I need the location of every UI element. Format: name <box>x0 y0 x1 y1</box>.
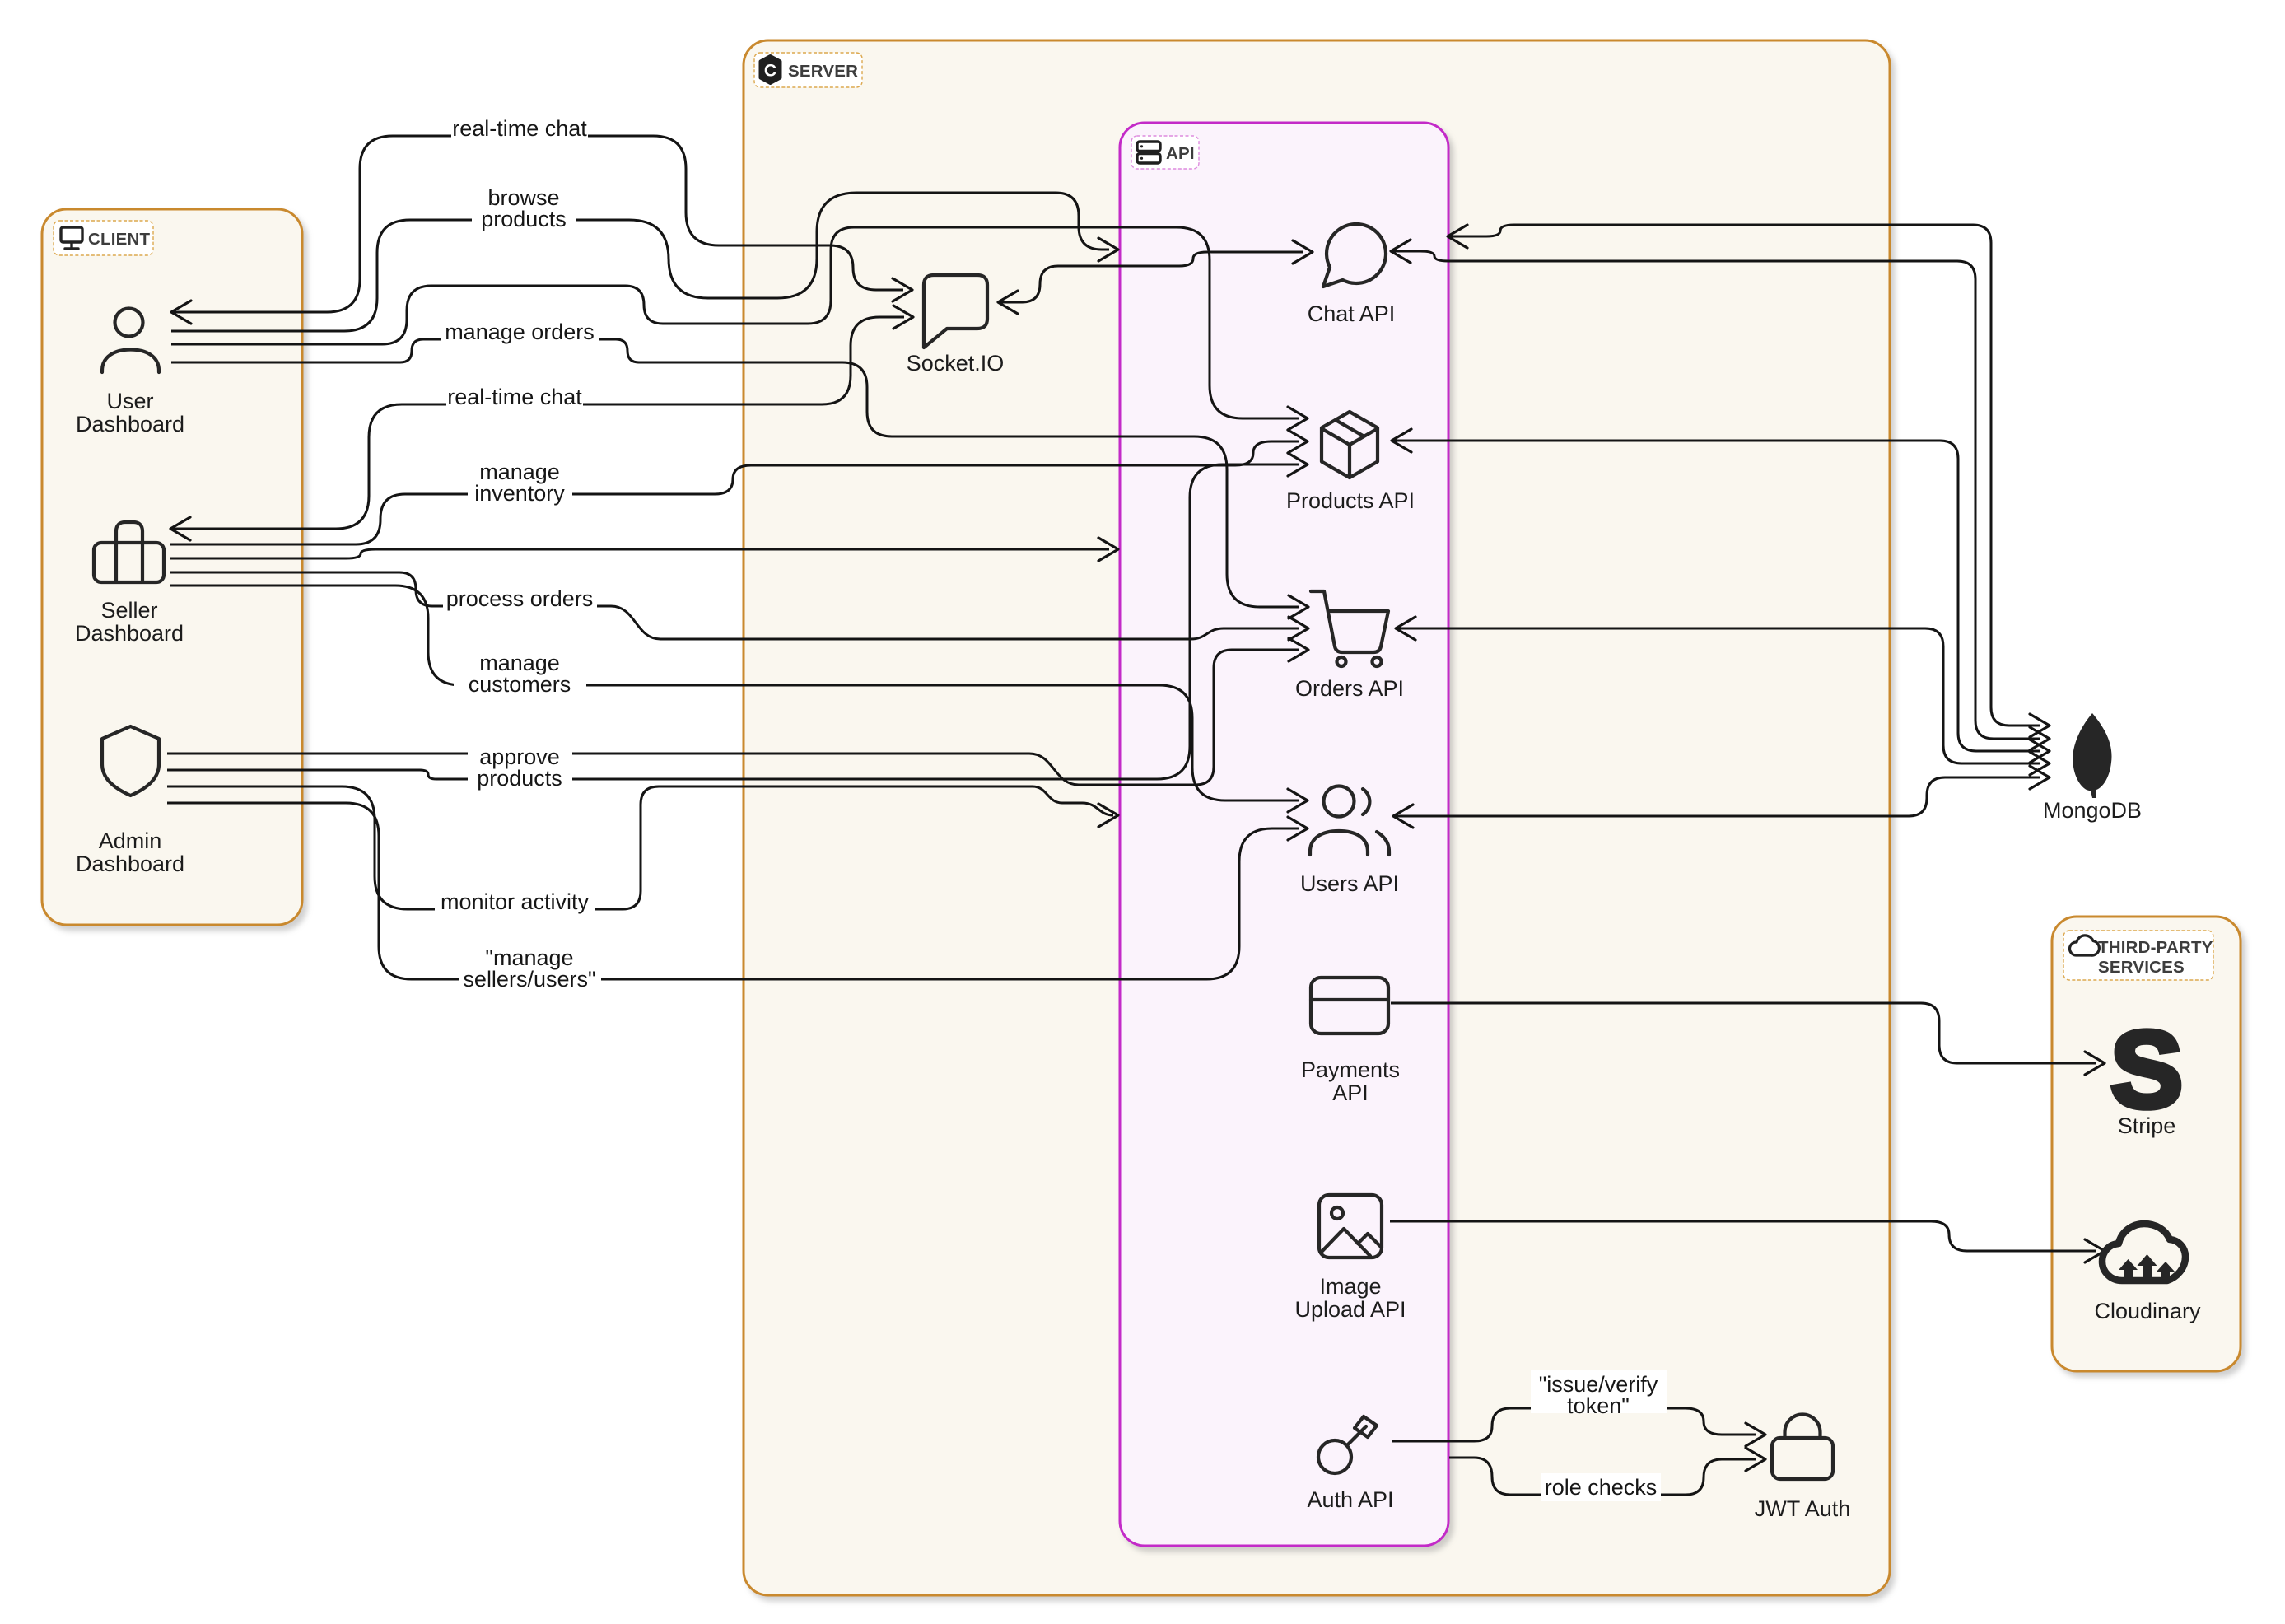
label real-time chat (User) <box>451 114 588 142</box>
wire Seller Dashboard <> Socket.IO (real-time chat) <box>170 317 904 529</box>
label manage orders <box>441 318 599 346</box>
wire User Dashboard > Products API <box>171 227 1299 418</box>
svg-text:THIRD-PARTY: THIRD-PARTY <box>2098 938 2213 957</box>
svg-text:SERVICES: SERVICES <box>2098 958 2185 977</box>
node User Dashboard (person icon) <box>115 309 143 337</box>
svg-text:JWT Auth: JWT Auth <box>1755 1496 1851 1521</box>
svg-text:customers: customers <box>469 672 571 697</box>
wire Admin Dashboard > Users API (manage sellers/users) <box>167 803 1299 979</box>
svg-text:Seller: Seller <box>100 598 157 623</box>
svg-text:Image: Image <box>1319 1274 1381 1299</box>
label real-time chat (Seller) <box>446 383 583 411</box>
svg-text:MongoDB: MongoDB <box>2043 798 2142 823</box>
svg-text:real-time chat: real-time chat <box>452 116 587 141</box>
svg-text:manage orders: manage orders <box>445 320 595 344</box>
wire Admin Dashboard > Orders API <box>167 650 1299 785</box>
NODE LABELS <box>75 301 2201 1521</box>
wire User Dashboard <> Socket.IO (real-time chat) <box>171 136 903 312</box>
label manage inventory <box>468 459 572 500</box>
group CLIENT <box>42 209 302 925</box>
node Image Upload API (image icon) <box>1319 1195 1382 1258</box>
group API <box>1120 123 1448 1546</box>
label "manage sellers/users" <box>459 945 601 987</box>
node Seller Dashboard (briefcase icon) <box>94 543 164 582</box>
svg-text:Dashboard: Dashboard <box>76 412 184 436</box>
svg-text:Dashboard: Dashboard <box>75 621 184 646</box>
svg-text:Payments: Payments <box>1301 1057 1400 1082</box>
label approve products <box>468 744 572 786</box>
badge SERVER <box>754 53 862 87</box>
wire Seller Dashboard > Users API (manage customers) <box>170 586 1299 800</box>
wire Image Upload API > Cloudinary <box>1390 1221 2096 1251</box>
svg-text:products: products <box>481 207 567 231</box>
wire User Dashboard > Orders API (manage orders) <box>171 339 1299 607</box>
node Auth API (key icon) <box>1318 1440 1351 1473</box>
svg-text:Users API: Users API <box>1300 871 1399 896</box>
node Orders API (cart icon) <box>1311 591 1388 652</box>
wire Seller Dashboard > Orders API (process orders) <box>170 572 1299 639</box>
wire Orders API <> MongoDB <box>1396 628 2040 763</box>
wire Admin Dashboard > Products API (approve products) <box>167 464 1299 779</box>
node JWT Auth (lock icon) <box>1772 1438 1833 1479</box>
badge THIRD-PARTY SERVICES <box>2063 931 2213 980</box>
svg-text:Dashboard: Dashboard <box>76 852 184 876</box>
svg-text:SERVER: SERVER <box>788 62 858 81</box>
wire Chat API <> MongoDB <box>1391 251 2040 739</box>
EDGE LABELS <box>435 114 1667 1501</box>
node Cloudinary (cloud upload icon) <box>2102 1224 2185 1281</box>
svg-text:C: C <box>764 62 776 81</box>
label "issue/verify token" <box>1531 1370 1667 1413</box>
wire Users API <> MongoDB <box>1393 777 2040 816</box>
badge CLIENT <box>54 221 153 255</box>
svg-text:CLIENT: CLIENT <box>88 230 150 249</box>
group THIRD-PARTY SERVICES <box>2052 917 2241 1371</box>
svg-text:Upload API: Upload API <box>1294 1297 1406 1322</box>
node Products API (package icon) <box>1322 412 1378 478</box>
svg-text:User: User <box>106 389 153 413</box>
node MongoDB (leaf icon) <box>2073 713 2111 798</box>
node Admin Dashboard (shield icon) <box>102 726 159 796</box>
wire Socket.IO <> Chat API <box>998 252 1303 302</box>
svg-text:API: API <box>1166 144 1195 163</box>
wire Admin Dashboard > API (monitor activity) <box>167 786 1113 909</box>
wire Seller Dashboard > API <box>170 549 1109 558</box>
svg-text:API: API <box>1332 1080 1369 1105</box>
svg-text:Auth API: Auth API <box>1307 1487 1393 1512</box>
svg-text:monitor activity: monitor activity <box>441 889 590 914</box>
wire Products API <> MongoDB <box>1392 441 2040 751</box>
svg-text:Orders API: Orders API <box>1295 676 1404 701</box>
svg-text:S: S <box>2110 1009 2183 1130</box>
wire Auth API > JWT Auth (issue/verify token) <box>1392 1408 1756 1441</box>
monitor icon <box>61 227 82 242</box>
badge API <box>1131 136 1199 169</box>
svg-text:real-time chat: real-time chat <box>447 385 582 409</box>
wire MongoDB <> API <box>1448 225 2040 726</box>
wire Payments API > Stripe <box>1391 1003 2096 1063</box>
svg-text:Admin: Admin <box>99 828 162 853</box>
label browse products <box>472 184 576 226</box>
stacked servers icon <box>1137 142 1160 152</box>
cloud icon <box>2070 936 2100 955</box>
node Users API (users icon) <box>1324 786 1355 817</box>
wire API > JWT Auth (role checks) <box>1449 1458 1756 1495</box>
svg-text:role checks: role checks <box>1545 1475 1658 1500</box>
wire Seller Dashboard > Products API (manage inventory) <box>170 441 1299 544</box>
NODE ICONS <box>94 224 2185 1479</box>
svg-text:Chat API: Chat API <box>1308 301 1396 326</box>
node Chat API (message-circle icon) <box>1323 224 1386 287</box>
label monitor activity <box>435 888 595 916</box>
svg-text:Cloudinary: Cloudinary <box>2094 1299 2201 1323</box>
label manage customers <box>454 650 586 692</box>
wire User Dashboard > API (browse products) <box>171 193 1109 331</box>
group SERVER <box>744 40 1890 1595</box>
label process orders <box>443 585 597 613</box>
node Socket.IO (message-square icon) <box>924 275 987 348</box>
svg-text:products: products <box>477 766 562 791</box>
svg-text:process orders: process orders <box>446 586 594 611</box>
svg-text:Products API: Products API <box>1286 488 1415 513</box>
svg-text:inventory: inventory <box>474 481 565 506</box>
hexagon server icon <box>761 56 781 83</box>
svg-text:Stripe: Stripe <box>2118 1113 2176 1138</box>
node Payments API (credit card icon) <box>1311 978 1388 1034</box>
svg-text:token": token" <box>1567 1393 1630 1418</box>
svg-text:sellers/users": sellers/users" <box>463 967 595 992</box>
svg-text:Socket.IO: Socket.IO <box>907 351 1005 376</box>
label role checks <box>1541 1473 1661 1501</box>
